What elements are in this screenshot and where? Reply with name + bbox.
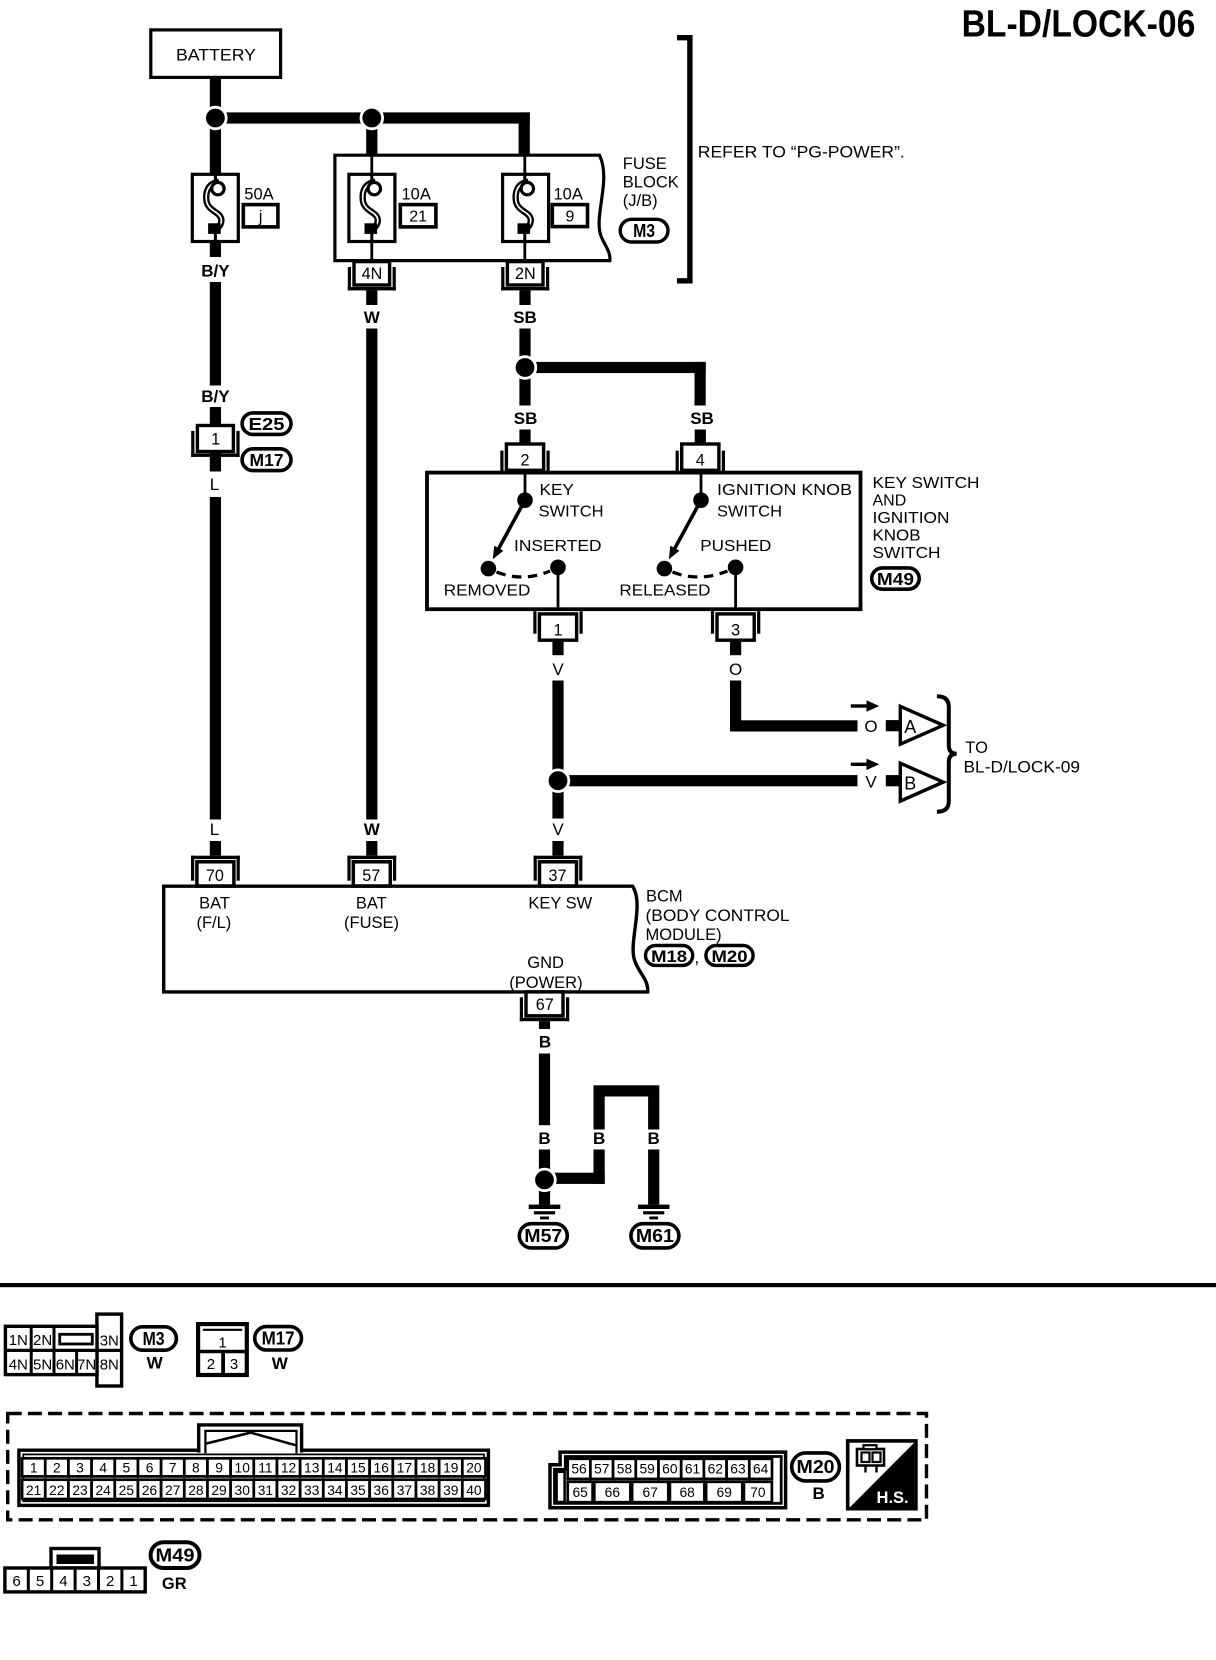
svg-text:37: 37 — [397, 1483, 412, 1498]
svg-text:(F/L): (F/L) — [196, 914, 231, 932]
svg-text:SB: SB — [513, 308, 537, 327]
svg-text:6: 6 — [146, 1461, 154, 1476]
svg-text:KNOB: KNOB — [873, 528, 921, 545]
svg-text:V: V — [552, 820, 564, 839]
svg-text:RELEASED: RELEASED — [619, 583, 710, 600]
svg-text:1: 1 — [211, 430, 220, 448]
svg-text:39: 39 — [443, 1483, 459, 1498]
svg-text:BATTERY: BATTERY — [176, 46, 256, 65]
svg-text:5N: 5N — [33, 1356, 52, 1373]
svg-text:L: L — [210, 475, 219, 494]
svg-text:66: 66 — [605, 1485, 621, 1500]
svg-text:32: 32 — [281, 1483, 296, 1498]
svg-text:B/Y: B/Y — [201, 262, 230, 281]
svg-text:9: 9 — [565, 208, 574, 225]
svg-text:5: 5 — [123, 1461, 131, 1476]
svg-text:GR: GR — [162, 1575, 187, 1593]
svg-text:21: 21 — [26, 1483, 41, 1498]
svg-text:69: 69 — [717, 1485, 733, 1500]
svg-text:70: 70 — [206, 867, 224, 885]
svg-text:B: B — [904, 774, 916, 794]
svg-text:6: 6 — [12, 1573, 20, 1590]
svg-text:REFER TO “PG-POWER”.: REFER TO “PG-POWER”. — [698, 144, 905, 162]
svg-text:62: 62 — [708, 1462, 723, 1477]
svg-text:1N: 1N — [9, 1332, 28, 1349]
svg-text:(FUSE): (FUSE) — [344, 914, 399, 932]
svg-text:2: 2 — [53, 1461, 61, 1476]
svg-text:SWITCH: SWITCH — [717, 504, 782, 521]
svg-text:5: 5 — [36, 1573, 44, 1590]
svg-text:,: , — [695, 949, 700, 967]
svg-text:33: 33 — [304, 1483, 320, 1498]
svg-text:4N: 4N — [9, 1356, 28, 1373]
svg-text:M49: M49 — [156, 1545, 195, 1565]
svg-text:4: 4 — [696, 452, 705, 470]
svg-text:15: 15 — [350, 1461, 366, 1476]
svg-text:BLOCK: BLOCK — [623, 174, 679, 192]
svg-text:8: 8 — [192, 1461, 200, 1476]
svg-text:6N: 6N — [56, 1356, 75, 1373]
svg-text:SB: SB — [514, 409, 538, 428]
svg-text:PUSHED: PUSHED — [700, 538, 771, 555]
svg-text:V: V — [552, 660, 564, 679]
svg-text:3: 3 — [230, 1356, 238, 1373]
svg-text:M18: M18 — [651, 947, 687, 966]
svg-text:SWITCH: SWITCH — [539, 504, 604, 521]
svg-text:TO: TO — [965, 739, 988, 757]
svg-text:KEY SW: KEY SW — [528, 895, 592, 913]
svg-text:M49: M49 — [877, 569, 914, 589]
svg-text:11: 11 — [258, 1461, 272, 1476]
svg-text:31: 31 — [258, 1483, 273, 1498]
svg-text:4: 4 — [99, 1461, 107, 1476]
svg-text:22: 22 — [49, 1483, 64, 1498]
svg-text:REMOVED: REMOVED — [444, 583, 531, 600]
svg-text:FUSE: FUSE — [623, 155, 667, 173]
svg-text:4: 4 — [59, 1573, 67, 1590]
svg-text:3: 3 — [83, 1573, 91, 1590]
svg-text:27: 27 — [165, 1483, 180, 1498]
svg-text:17: 17 — [397, 1461, 412, 1476]
svg-text:12: 12 — [281, 1461, 296, 1476]
svg-text:M3: M3 — [633, 221, 655, 241]
svg-text:(BODY CONTROL: (BODY CONTROL — [646, 907, 790, 925]
svg-text:70: 70 — [750, 1485, 766, 1500]
svg-text:1: 1 — [30, 1461, 38, 1476]
svg-text:67: 67 — [536, 996, 554, 1014]
svg-text:60: 60 — [662, 1462, 678, 1477]
svg-text:KEY: KEY — [540, 482, 574, 499]
svg-text:64: 64 — [753, 1462, 769, 1477]
svg-text:1: 1 — [129, 1573, 137, 1590]
svg-text:A: A — [904, 717, 916, 737]
svg-text:25: 25 — [119, 1483, 135, 1498]
svg-text:BAT: BAT — [356, 895, 387, 913]
svg-text:SWITCH: SWITCH — [873, 545, 941, 562]
svg-text:(J/B): (J/B) — [623, 192, 658, 210]
svg-text:M20: M20 — [712, 947, 748, 966]
svg-text:M20: M20 — [797, 1457, 835, 1477]
svg-text:O: O — [864, 717, 877, 736]
svg-text:M17: M17 — [262, 1329, 295, 1349]
svg-text:7N: 7N — [77, 1356, 96, 1373]
svg-text:2N: 2N — [515, 265, 536, 283]
svg-text:16: 16 — [374, 1461, 390, 1476]
svg-text:M57: M57 — [524, 1226, 562, 1246]
svg-text:57: 57 — [362, 867, 380, 885]
svg-text:B: B — [539, 1033, 551, 1052]
svg-text:57: 57 — [594, 1462, 609, 1477]
svg-text:SB: SB — [690, 409, 714, 428]
svg-text:10: 10 — [235, 1461, 251, 1476]
svg-text:KEY SWITCH: KEY SWITCH — [873, 475, 980, 492]
svg-text:8N: 8N — [100, 1356, 119, 1373]
svg-text:21: 21 — [409, 209, 427, 226]
svg-text:BL-D/LOCK-06: BL-D/LOCK-06 — [962, 3, 1196, 45]
svg-text:20: 20 — [466, 1461, 482, 1476]
svg-text:14: 14 — [327, 1461, 343, 1476]
svg-text:B: B — [812, 1484, 824, 1503]
svg-text:2N: 2N — [33, 1332, 52, 1349]
svg-text:30: 30 — [235, 1483, 251, 1498]
svg-text:B: B — [593, 1129, 605, 1148]
svg-text:2: 2 — [207, 1356, 215, 1373]
svg-text:10A: 10A — [554, 186, 583, 204]
svg-text:18: 18 — [420, 1461, 436, 1476]
svg-text:M61: M61 — [636, 1226, 674, 1246]
svg-text:O: O — [729, 660, 742, 679]
svg-text:L: L — [210, 820, 219, 839]
svg-text:IGNITION KNOB: IGNITION KNOB — [717, 482, 852, 499]
svg-text:29: 29 — [211, 1483, 227, 1498]
svg-text:W: W — [364, 308, 381, 327]
svg-text:H.S.: H.S. — [877, 1489, 909, 1507]
svg-text:GND: GND — [527, 954, 564, 972]
svg-text:M3: M3 — [143, 1329, 165, 1349]
svg-text:4N: 4N — [362, 265, 383, 283]
svg-text:68: 68 — [679, 1485, 695, 1500]
svg-text:W: W — [147, 1353, 164, 1372]
svg-text:26: 26 — [142, 1483, 158, 1498]
svg-text:35: 35 — [350, 1483, 366, 1498]
svg-text:B: B — [648, 1129, 660, 1148]
svg-text:3: 3 — [76, 1461, 84, 1476]
svg-text:63: 63 — [730, 1462, 746, 1477]
svg-text:9: 9 — [215, 1461, 223, 1476]
svg-text:BL-D/LOCK-09: BL-D/LOCK-09 — [964, 758, 1081, 776]
svg-text:BAT: BAT — [199, 895, 230, 913]
svg-text:50A: 50A — [244, 186, 273, 204]
svg-text:13: 13 — [304, 1461, 320, 1476]
svg-text:2: 2 — [520, 452, 529, 470]
svg-text:BCM: BCM — [646, 888, 683, 906]
svg-text:B/Y: B/Y — [201, 387, 230, 406]
svg-text:E25: E25 — [249, 414, 285, 434]
svg-text:V: V — [865, 773, 877, 792]
svg-text:36: 36 — [374, 1483, 390, 1498]
svg-text:3N: 3N — [100, 1332, 119, 1349]
svg-text:37: 37 — [548, 867, 566, 885]
svg-text:j: j — [258, 209, 263, 226]
svg-text:AND: AND — [873, 493, 907, 510]
svg-text:24: 24 — [96, 1483, 112, 1498]
svg-text:INSERTED: INSERTED — [514, 538, 602, 555]
svg-text:(POWER): (POWER) — [509, 974, 582, 992]
svg-text:38: 38 — [420, 1483, 436, 1498]
svg-text:58: 58 — [617, 1462, 633, 1477]
svg-text:3: 3 — [731, 622, 740, 640]
svg-text:10A: 10A — [402, 186, 431, 204]
svg-text:65: 65 — [572, 1485, 588, 1500]
svg-text:56: 56 — [571, 1462, 587, 1477]
svg-text:MODULE): MODULE) — [646, 926, 722, 944]
svg-text:67: 67 — [643, 1485, 658, 1500]
svg-text:IGNITION: IGNITION — [873, 510, 950, 527]
svg-text:61: 61 — [685, 1462, 700, 1477]
svg-text:7: 7 — [169, 1461, 177, 1476]
svg-text:W: W — [272, 1354, 289, 1373]
svg-text:1: 1 — [553, 622, 562, 640]
svg-text:34: 34 — [327, 1483, 343, 1498]
svg-text:1: 1 — [218, 1334, 226, 1351]
svg-text:W: W — [364, 820, 381, 839]
svg-text:59: 59 — [639, 1462, 655, 1477]
svg-text:19: 19 — [443, 1461, 459, 1476]
svg-text:2: 2 — [106, 1573, 114, 1590]
svg-text:23: 23 — [72, 1483, 88, 1498]
svg-text:B: B — [538, 1129, 550, 1148]
svg-text:M17: M17 — [250, 450, 284, 470]
svg-text:40: 40 — [466, 1483, 482, 1498]
svg-text:28: 28 — [188, 1483, 204, 1498]
